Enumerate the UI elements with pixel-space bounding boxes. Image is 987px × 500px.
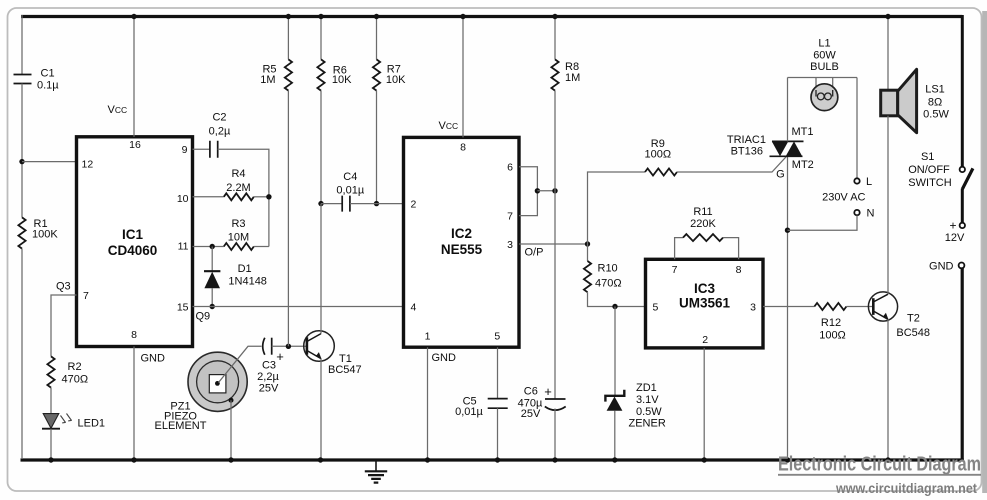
- label R4 value: [226, 168, 250, 194]
- wire +12V top rail: [21, 15, 962, 18]
- svg-text:8: 8: [131, 329, 137, 341]
- label C3 value: [257, 360, 279, 395]
- svg-text:IC1: IC1: [122, 227, 144, 242]
- label 230V AC: [822, 191, 865, 203]
- svg-text:8: 8: [736, 264, 742, 276]
- svg-text:7: 7: [83, 290, 89, 302]
- svg-text:SWITCH: SWITCH: [908, 177, 951, 189]
- zener ZD1: [605, 390, 624, 411]
- label GND terminal: [929, 261, 954, 273]
- capacitor C2: [210, 141, 218, 158]
- svg-text:60W: 60W: [813, 49, 836, 61]
- wire speaker top lead: [887, 17, 889, 91]
- node speaker rail junction: [885, 14, 890, 19]
- node R6 rail junction: [318, 14, 323, 19]
- svg-text:16: 16: [129, 139, 141, 151]
- svg-text:BT136: BT136: [731, 146, 763, 158]
- node MT2 neutral junction: [785, 228, 790, 233]
- svg-text:8: 8: [460, 142, 466, 154]
- svg-text:9: 9: [182, 144, 188, 156]
- wire T1 emitter to ground rail: [320, 359, 322, 459]
- svg-text:ZD1: ZD1: [636, 382, 657, 394]
- ground earth symbol: [365, 460, 387, 483]
- svg-text:UM3561: UM3561: [679, 296, 731, 311]
- label IC1 pin 9: [182, 144, 188, 156]
- wire LED1 to ground rail: [50, 429, 52, 459]
- label IC3 pin 7: [672, 264, 678, 276]
- svg-text:0.5W: 0.5W: [636, 406, 662, 418]
- wire C6 to ground rail: [554, 409, 556, 460]
- svg-text:+: +: [276, 349, 284, 364]
- label R8 value: [565, 61, 580, 84]
- wire left column top: [21, 15, 23, 75]
- terminal GND: [959, 263, 965, 269]
- label IC2 pin 7: [507, 211, 513, 223]
- node C1-R1 pin12 junction: [19, 159, 24, 164]
- op-amp IC1 CD4060 box: [77, 137, 193, 347]
- svg-text:MT2: MT2: [792, 159, 814, 171]
- label IC2 name: [441, 226, 483, 257]
- label MT1: [792, 126, 814, 138]
- svg-text:3: 3: [507, 239, 513, 251]
- svg-text:0,01µ: 0,01µ: [336, 184, 364, 196]
- wire MT1 to bulb line: [787, 78, 789, 142]
- wire IC3 pin2 to ground rail: [703, 348, 705, 459]
- wire C3 to T1 base: [272, 345, 307, 347]
- label IC2 pin 6: [507, 162, 513, 174]
- label R2 value: [62, 361, 89, 386]
- label R7 value: [386, 64, 406, 86]
- svg-text:D1: D1: [238, 263, 252, 275]
- svg-text:LS1: LS1: [925, 84, 945, 96]
- svg-text:C3: C3: [262, 360, 276, 372]
- node pin6-7 midpoint junction: [535, 188, 540, 193]
- wire IC2 pin6 pin7 bracket: [519, 167, 537, 216]
- label IC1 GND: [141, 353, 166, 365]
- wire C4 to IC2 pin2: [350, 203, 404, 205]
- capacitor C6: [544, 384, 565, 410]
- svg-text:12: 12: [82, 158, 94, 170]
- svg-text:T2: T2: [907, 313, 920, 325]
- label IC2 pin 2: [411, 199, 417, 211]
- label D1 value: [228, 263, 267, 287]
- node MT2 ground junction: [785, 457, 790, 462]
- wire pin12 line: [22, 161, 77, 163]
- wire piezo to C3: [219, 346, 262, 382]
- resistor R6: [317, 59, 324, 90]
- svg-text:www.circuitdiagram.net: www.circuitdiagram.net: [835, 481, 977, 496]
- node IC2 pin1 ground junction: [425, 457, 430, 462]
- piezo PZ1 element: [188, 352, 247, 411]
- svg-text:3: 3: [750, 301, 756, 313]
- wire IC1 pin7 to R2: [51, 295, 77, 356]
- lamp L1 bulb: [811, 78, 838, 111]
- node R8 column junction: [552, 188, 557, 193]
- wire R7 top lead: [376, 17, 378, 60]
- wire T2 emitter to ground rail: [887, 319, 889, 459]
- svg-text:CD4060: CD4060: [108, 243, 158, 258]
- svg-text:4: 4: [411, 301, 417, 313]
- svg-text:S1: S1: [921, 151, 934, 163]
- wire IC3 pin3 to R12: [763, 306, 814, 308]
- svg-text:R8: R8: [565, 61, 579, 73]
- wire IC1 pin11 stub: [193, 246, 224, 248]
- node piezo ground junction: [228, 457, 233, 462]
- label C5 value: [455, 395, 483, 418]
- node ZD1 ground junction: [612, 457, 617, 462]
- label IC1 pin 11: [178, 240, 189, 252]
- label IC3 name: [679, 281, 731, 311]
- label R9 value: [645, 138, 672, 161]
- svg-text:ELEMENT: ELEMENT: [155, 420, 207, 432]
- label ZD1 value: [629, 382, 666, 430]
- node D1 pin15 junction: [210, 304, 215, 309]
- node ZD1 pin5 junction: [612, 304, 617, 309]
- wire R4 to column: [254, 196, 269, 198]
- node LED1 ground junction: [48, 457, 53, 462]
- label IC3 pin 3: [750, 301, 756, 313]
- svg-text:25V: 25V: [521, 408, 541, 420]
- wire R11 to pin8: [723, 238, 739, 260]
- svg-text:2.2M: 2.2M: [226, 182, 250, 194]
- label L: [866, 176, 872, 188]
- label R5 value: [260, 64, 276, 86]
- wire IC1 pin10 stub: [193, 196, 224, 198]
- node C6 ground junction: [552, 457, 557, 462]
- op-amp IC3 UM3561 box: [646, 259, 764, 348]
- label N: [867, 208, 875, 220]
- wire R6 top lead: [320, 17, 322, 60]
- wire C5 to ground rail: [497, 408, 499, 459]
- svg-text:+: +: [544, 384, 552, 399]
- wire R8 bottom lead: [554, 91, 556, 191]
- node Vcc rail junction IC2: [460, 14, 465, 19]
- svg-text:3.1V: 3.1V: [636, 394, 659, 406]
- wire triac MT2 column: [787, 156, 789, 459]
- node D1 pin11 junction: [210, 244, 215, 249]
- svg-text:0.5W: 0.5W: [923, 109, 949, 121]
- label IC1 pin 12: [82, 158, 94, 170]
- label IC1 Vcc: [108, 104, 128, 116]
- capacitor C3: [263, 338, 284, 364]
- resistor R1: [18, 217, 25, 248]
- label IC1 pin 10: [177, 193, 189, 205]
- node Vcc rail junction IC1: [131, 14, 136, 19]
- wire pin6-7 node to R8 column: [537, 190, 555, 192]
- svg-text:10: 10: [177, 193, 189, 205]
- wire ZD1 top lead: [614, 307, 616, 396]
- svg-text:O/P: O/P: [525, 247, 544, 259]
- label S1: [908, 151, 952, 189]
- wire C2 to feedback column: [218, 149, 269, 246]
- svg-text:C1: C1: [41, 68, 55, 80]
- svg-text:IC2: IC2: [451, 226, 472, 241]
- svg-text:ON/OFF: ON/OFF: [908, 164, 950, 176]
- node R4 feedback junction: [266, 194, 271, 199]
- label C6 value: [518, 386, 543, 420]
- wire right ground riser to GND terminal: [961, 268, 964, 460]
- label L1 value: [810, 37, 839, 72]
- label IC1 pin 7: [83, 290, 89, 302]
- LED LED1: [42, 414, 72, 429]
- wire R5 top lead: [287, 17, 289, 60]
- svg-text:2: 2: [411, 199, 417, 211]
- node IC3 pin2 ground junction: [702, 457, 707, 462]
- svg-text:ZENER: ZENER: [629, 418, 666, 430]
- svg-text:100Ω: 100Ω: [819, 330, 846, 342]
- label R11 value: [690, 206, 716, 230]
- svg-text:N: N: [867, 208, 875, 220]
- svg-text:R11: R11: [693, 206, 712, 218]
- resistor R11: [683, 234, 723, 241]
- node R7 C4 junction: [374, 201, 379, 206]
- wire R2 to LED1: [50, 388, 52, 414]
- label +12V terminal: [945, 218, 965, 244]
- svg-text:0,2µ: 0,2µ: [209, 126, 231, 138]
- svg-text:470Ω: 470Ω: [595, 277, 622, 289]
- label R10 value: [595, 262, 622, 289]
- label IC1 name: [108, 227, 158, 258]
- svg-text:0.1µ: 0.1µ: [37, 79, 59, 91]
- wire rail to switch S1: [961, 15, 964, 167]
- wire IC2 Vcc pin8 riser: [462, 17, 464, 138]
- label PZ1: [155, 400, 207, 432]
- svg-text:GND: GND: [929, 261, 954, 273]
- label IC2 Vcc: [439, 120, 459, 132]
- node C5 ground junction: [495, 457, 500, 462]
- svg-text:BULB: BULB: [810, 61, 839, 73]
- label R6 value: [332, 65, 352, 87]
- resistor R12: [814, 303, 846, 310]
- svg-text:12V: 12V: [945, 232, 965, 244]
- watermark line 1: [778, 453, 981, 476]
- resistor R9: [645, 169, 677, 176]
- label IC2 pin 1: [425, 331, 431, 343]
- svg-text:220K: 220K: [690, 218, 716, 230]
- wire piezo to ground rail: [230, 400, 232, 459]
- label T2 value: [896, 313, 930, 340]
- capacitor C4: [342, 196, 350, 212]
- svg-text:470Ω: 470Ω: [62, 373, 89, 385]
- svg-text:10K: 10K: [332, 74, 352, 86]
- wire R5 bottom lead: [287, 91, 289, 347]
- wire R10 to IC3 pin5: [588, 292, 646, 306]
- wire pin3 node to R9 line: [588, 172, 646, 244]
- svg-text:1: 1: [425, 331, 431, 343]
- wire IC1 pin8 to ground rail: [133, 347, 135, 460]
- svg-text:Electronic Circuit Diagram: Electronic Circuit Diagram: [778, 453, 981, 476]
- svg-text:GND: GND: [432, 352, 457, 364]
- svg-text:+: +: [949, 218, 956, 232]
- label MT2: [792, 159, 814, 171]
- svg-text:GND: GND: [141, 353, 166, 365]
- svg-text:15: 15: [177, 301, 189, 313]
- label IC2 pin 3: [507, 239, 513, 251]
- svg-text:R10: R10: [598, 262, 618, 274]
- wire IC1 Vcc pin16 riser: [133, 17, 135, 137]
- svg-text:TRIAC1: TRIAC1: [727, 134, 766, 146]
- wire C1 to R1: [21, 84, 23, 218]
- speaker LS1: [881, 69, 917, 132]
- terminal L: [854, 178, 859, 183]
- svg-text:1N4148: 1N4148: [228, 275, 267, 287]
- wire bulb to L terminal: [856, 78, 858, 179]
- node R5 rail junction: [286, 14, 291, 19]
- wire pin3 node to R10: [587, 244, 589, 261]
- resistor R7: [373, 59, 380, 90]
- node R8 rail junction: [552, 14, 557, 19]
- svg-text:0,01µ: 0,01µ: [455, 406, 483, 418]
- svg-text:11: 11: [178, 240, 189, 252]
- label R12 value: [819, 317, 846, 342]
- label IC2 pin 5: [494, 331, 500, 343]
- svg-text:7: 7: [507, 211, 513, 223]
- label IC1 pin 15: [177, 301, 189, 313]
- svg-text:5: 5: [653, 301, 659, 313]
- resistor R3: [224, 243, 254, 250]
- node R7 rail junction: [374, 14, 379, 19]
- svg-text:G: G: [776, 169, 785, 181]
- label R1 value: [32, 218, 58, 241]
- svg-text:Q9: Q9: [196, 311, 211, 323]
- svg-text:L: L: [866, 176, 872, 188]
- node piezo ground tap: [229, 398, 234, 403]
- svg-text:1M: 1M: [565, 72, 580, 84]
- label IC2 pin 4: [411, 301, 417, 313]
- label LED1: [78, 417, 106, 429]
- svg-text:25V: 25V: [259, 382, 279, 394]
- wire R3 to column: [254, 246, 269, 248]
- wire R9 to triac gate: [677, 157, 786, 172]
- label T1 value: [328, 353, 362, 376]
- label IC3 pin 5: [653, 301, 659, 313]
- svg-text:Q3: Q3: [56, 281, 71, 293]
- wire N to MT2 column: [788, 215, 858, 230]
- svg-text:8Ω: 8Ω: [928, 96, 942, 108]
- diode D1 1N4148: [204, 271, 220, 288]
- wire IC1 pin15 to IC2 pin4: [193, 306, 404, 308]
- svg-text:L1: L1: [818, 37, 830, 49]
- capacitor C1: [14, 75, 32, 84]
- svg-text:7: 7: [672, 264, 678, 276]
- label node Q9: [196, 311, 211, 323]
- svg-text:R2: R2: [68, 361, 82, 373]
- wire IC2 pin3 output line: [519, 243, 588, 245]
- wire D1 bottom lead: [211, 288, 213, 306]
- wire T1 collector riser: [320, 204, 322, 334]
- node T2 emitter ground junction: [885, 457, 890, 462]
- transistor T1 BC547: [304, 331, 335, 362]
- svg-text:100Ω: 100Ω: [645, 149, 672, 161]
- wire R1 to bottom rail: [21, 249, 23, 459]
- op-amp IC2 NE555 box: [404, 137, 520, 347]
- label IC2 pin 8: [460, 142, 466, 154]
- label C4 value: [336, 171, 364, 196]
- svg-text:100K: 100K: [32, 229, 58, 241]
- label IC1 pin 16: [129, 139, 141, 151]
- svg-text:BC548: BC548: [896, 327, 930, 339]
- svg-text:C6: C6: [524, 386, 538, 398]
- wire R8 column to C6: [554, 191, 556, 399]
- node pin3 R9 R10 junction: [585, 241, 590, 246]
- label IC1 pin 8: [131, 329, 137, 341]
- resistor R5: [285, 59, 292, 90]
- transistor T2 BC548: [868, 292, 897, 321]
- wire R11 loop: [675, 238, 683, 260]
- label LS1 value: [923, 84, 949, 121]
- watermark line 2: [835, 481, 977, 496]
- svg-text:6: 6: [507, 162, 513, 174]
- label TRIAC1 value: [727, 134, 766, 158]
- svg-text:LED1: LED1: [78, 417, 106, 429]
- wire bulb top line: [788, 77, 858, 79]
- label IC2 GND: [432, 352, 457, 364]
- wire D1 top lead: [211, 247, 213, 272]
- label C2 value: [209, 112, 231, 138]
- label triac gate G: [776, 169, 785, 181]
- svg-text:R12: R12: [821, 317, 841, 329]
- svg-text:R4: R4: [231, 168, 245, 180]
- svg-text:10M: 10M: [228, 232, 249, 244]
- wire R7 bottom lead: [376, 91, 378, 204]
- node IC1 ground junction: [131, 457, 136, 462]
- wire R8 top lead: [554, 17, 556, 60]
- svg-text:2: 2: [702, 334, 708, 346]
- svg-text:C4: C4: [343, 171, 357, 183]
- wire T2 collector riser: [887, 116, 889, 294]
- wire IC2 pin5 to C5: [497, 347, 499, 398]
- resistor R10: [584, 261, 591, 292]
- resistor R2: [47, 356, 54, 387]
- wire R6 bottom lead: [320, 91, 322, 204]
- resistor R8: [551, 59, 558, 90]
- wire IC1 pin9 stub: [193, 148, 210, 150]
- triac TRIAC1 BT136: [770, 141, 804, 156]
- wire ZD1 to ground rail: [614, 411, 616, 459]
- wire IC2 pin1 to ground rail: [427, 347, 429, 459]
- label R3 value: [228, 218, 249, 244]
- wire R12 to T2 base: [846, 306, 873, 308]
- node R6 C4 junction: [318, 201, 323, 206]
- resistor R4: [224, 193, 254, 200]
- svg-text:230V AC: 230V AC: [822, 191, 865, 203]
- label O/P: [525, 247, 544, 259]
- terminal N: [854, 210, 859, 215]
- label IC3 pin 2: [702, 334, 708, 346]
- svg-text:C2: C2: [212, 112, 226, 124]
- wire C4 left lead: [321, 203, 342, 205]
- svg-text:IC3: IC3: [694, 281, 716, 296]
- label node Q3: [56, 281, 71, 293]
- svg-text:R3: R3: [231, 218, 245, 230]
- wire ground bottom rail: [21, 458, 964, 461]
- svg-text:10K: 10K: [386, 74, 406, 86]
- svg-text:VCC: VCC: [108, 104, 128, 116]
- node T1 emitter ground junction: [318, 457, 323, 462]
- svg-text:BC547: BC547: [328, 364, 362, 376]
- switch S1: [960, 167, 973, 228]
- svg-text:5: 5: [494, 331, 500, 343]
- capacitor C5: [488, 399, 508, 409]
- label IC3 pin 8: [736, 264, 742, 276]
- svg-text:MT1: MT1: [792, 126, 814, 138]
- label C1 value: [37, 68, 59, 92]
- svg-text:VCC: VCC: [439, 120, 459, 132]
- svg-text:1M: 1M: [260, 74, 275, 86]
- node R5 T1-base junction: [286, 344, 291, 349]
- svg-text:NE555: NE555: [441, 242, 483, 257]
